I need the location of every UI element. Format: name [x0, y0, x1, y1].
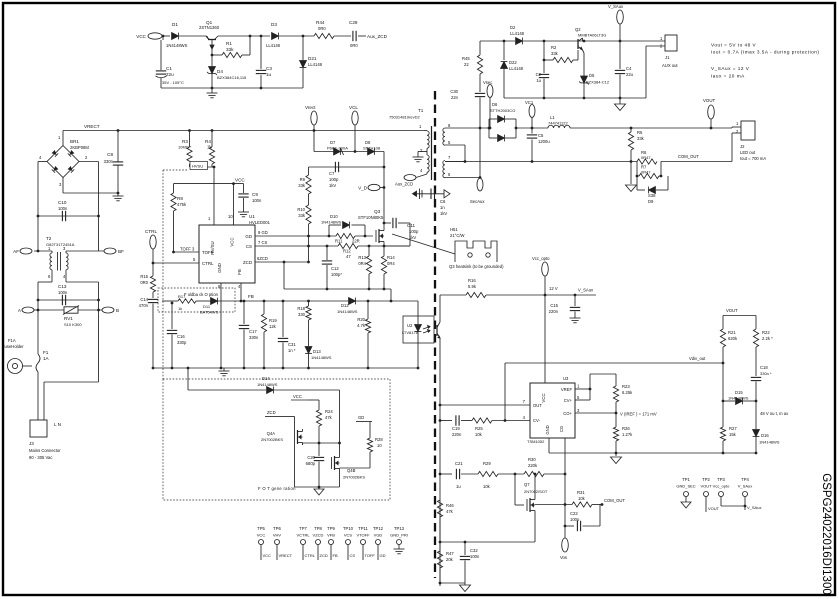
svg-text:TP13: TP13	[394, 526, 405, 531]
svg-text:Iout = 0.7A (Imax 3.5A - durin: Iout = 0.7A (Imax 3.5A - during protecti…	[711, 50, 819, 55]
svg-text:A: A	[18, 308, 22, 313]
svg-text:AUX out: AUX out	[662, 63, 678, 68]
svg-text:4: 4	[523, 415, 526, 420]
svg-text:COM_OUT: COM_OUT	[678, 154, 699, 159]
svg-text:D13: D13	[313, 349, 321, 354]
svg-text:B: B	[116, 308, 119, 313]
svg-text:100n: 100n	[58, 206, 68, 211]
svg-text:100n: 100n	[58, 290, 68, 295]
svg-text:VCC: VCC	[257, 533, 266, 538]
svg-text:Q3: Q3	[374, 209, 381, 214]
svg-text:D21: D21	[308, 56, 317, 61]
svg-text:C4: C4	[626, 66, 632, 71]
svg-text:12 V: 12 V	[549, 286, 558, 291]
svg-text:R15: R15	[140, 274, 148, 279]
svg-text:2.2k *: 2.2k *	[762, 336, 773, 341]
svg-text:3: 3	[59, 182, 62, 187]
svg-text:0R47: 0R47	[641, 170, 651, 175]
svg-text:R47: R47	[446, 551, 454, 556]
svg-text:2N7002/SOT: 2N7002/SOT	[524, 489, 548, 494]
svg-text:GD: GD	[380, 553, 386, 558]
svg-text:R2: R2	[551, 45, 557, 50]
svg-text:TOFF 3: TOFF 3	[180, 247, 195, 252]
svg-text:Aux_ZCD: Aux_ZCD	[395, 182, 413, 187]
svg-text:R12: R12	[343, 249, 351, 254]
svg-text:330n *: 330n *	[760, 371, 772, 376]
svg-text:1N4148WS: 1N4148WS	[311, 355, 332, 360]
svg-text:VRECT: VRECT	[84, 124, 100, 129]
svg-text:5.9k: 5.9k	[468, 284, 477, 289]
svg-text:U1: U1	[249, 214, 255, 219]
svg-text:33k: 33k	[226, 47, 234, 52]
svg-text:D22: D22	[509, 60, 517, 65]
svg-text:F O T gene ration: F O T gene ration	[258, 486, 296, 491]
svg-text:1u: 1u	[536, 78, 541, 83]
svg-text:D1: D1	[172, 22, 178, 27]
svg-text:V_SAux: V_SAux	[608, 4, 624, 9]
svg-text:0R4: 0R4	[387, 261, 395, 266]
svg-text:R3: R3	[182, 139, 188, 144]
svg-text:R21: R21	[728, 330, 736, 335]
svg-text:7: 7	[523, 399, 526, 404]
svg-text:CTRL: CTRL	[202, 261, 214, 266]
svg-text:V_SAux: V_SAux	[738, 484, 752, 489]
svg-text:F1A: F1A	[8, 338, 16, 343]
svg-text:10MΩ *: 10MΩ *	[178, 145, 192, 150]
svg-text:330n: 330n	[104, 159, 114, 164]
svg-text:D4: D4	[217, 69, 223, 74]
svg-text:TP3: TP3	[717, 477, 725, 482]
svg-text:VCL: VCL	[349, 105, 358, 110]
svg-text:VOUT: VOUT	[703, 98, 716, 103]
svg-text:MMBTA06LT3G: MMBTA06LT3G	[578, 33, 606, 38]
svg-text:10: 10	[377, 443, 382, 448]
svg-text:1N4148WS: 1N4148WS	[166, 43, 188, 48]
svg-text:330: 330	[298, 312, 306, 317]
svg-text:TP6: TP6	[273, 526, 281, 531]
svg-text:STTH2003CG: STTH2003CG	[490, 108, 515, 113]
svg-text:R28: R28	[375, 437, 383, 442]
svg-text:6ZCD: 6ZCD	[257, 256, 268, 261]
svg-text:CO+: CO+	[563, 411, 572, 416]
svg-text:R19: R19	[269, 318, 277, 323]
svg-text:10k: 10k	[475, 432, 483, 437]
svg-text:D8: D8	[365, 140, 371, 145]
svg-text:1: 1	[577, 384, 580, 389]
svg-text:VCC: VCC	[541, 393, 546, 402]
svg-text:1200u: 1200u	[538, 139, 550, 144]
svg-text:33k: 33k	[551, 51, 559, 56]
svg-text:S38: S38	[648, 193, 656, 198]
svg-text:CS: CS	[246, 244, 252, 249]
svg-text:VOUT: VOUT	[700, 484, 712, 489]
svg-text:R5: R5	[637, 130, 643, 135]
svg-text:R18: R18	[297, 306, 305, 311]
svg-text:475k: 475k	[177, 202, 187, 207]
svg-text:Aux_ZCD: Aux_ZCD	[367, 34, 388, 39]
svg-text:J2: J2	[740, 144, 745, 149]
svg-text:5: 5	[193, 257, 196, 262]
svg-text:D11: D11	[203, 304, 211, 309]
svg-text:C12: C12	[331, 266, 339, 271]
svg-text:C29: C29	[349, 20, 358, 25]
svg-text:BZX384C16,115: BZX384C16,115	[217, 75, 247, 80]
svg-text:FB: FB	[237, 269, 242, 275]
svg-text:J3: J3	[29, 441, 34, 446]
svg-text:2N7002BKS: 2N7002BKS	[261, 437, 283, 442]
svg-text:T1: T1	[418, 108, 424, 113]
svg-text:BF: BF	[118, 249, 124, 254]
svg-text:HVSU: HVSU	[192, 164, 203, 169]
svg-text:33k: 33k	[298, 183, 306, 188]
svg-text:V_SAux: V_SAux	[578, 288, 594, 293]
svg-text:10k: 10k	[483, 484, 491, 489]
svg-text:1kV: 1kV	[440, 211, 447, 216]
svg-text:D2: D2	[510, 25, 516, 30]
svg-text:GND: GND	[217, 263, 222, 273]
svg-text:Mains Connector: Mains Connector	[29, 448, 61, 453]
svg-text:U3: U3	[563, 376, 569, 381]
svg-text:R9: R9	[300, 177, 306, 182]
svg-text:HVLED001: HVLED001	[249, 220, 271, 225]
svg-text:9 GD: 9 GD	[258, 230, 268, 235]
svg-text:V_SAux: V_SAux	[747, 505, 761, 510]
svg-text:100p: 100p	[329, 177, 339, 182]
svg-text:VTOFF: VTOFF	[356, 533, 370, 538]
svg-text:C32: C32	[470, 548, 478, 553]
svg-text:TSM1052: TSM1052	[527, 439, 545, 444]
svg-text:TOFF: TOFF	[202, 250, 214, 255]
svg-text:R27: R27	[729, 426, 737, 431]
svg-text:2: 2	[420, 148, 423, 153]
svg-text:1: 1	[660, 36, 663, 41]
svg-text:C7: C7	[329, 171, 335, 176]
svg-text:D6: D6	[492, 102, 498, 107]
svg-text:R14: R14	[387, 255, 395, 260]
svg-text:T2: T2	[46, 236, 52, 241]
svg-text:48 V ou t, m ax: 48 V ou t, m ax	[760, 411, 789, 416]
svg-text:330n: 330n	[249, 335, 259, 340]
svg-text:C21: C21	[455, 461, 463, 466]
svg-text:CTRL: CTRL	[305, 553, 316, 558]
svg-text:10: 10	[228, 214, 233, 219]
svg-text:Vsec: Vsec	[483, 80, 492, 85]
svg-text:2KBP08M: 2KBP08M	[70, 145, 89, 150]
svg-text:90 - 305 Vac: 90 - 305 Vac	[29, 455, 52, 460]
svg-text:D3: D3	[271, 22, 277, 27]
svg-text:D9: D9	[648, 199, 654, 204]
svg-text:4: 4	[420, 168, 423, 173]
svg-text:ZCD: ZCD	[243, 260, 252, 265]
svg-text:1.27k: 1.27k	[622, 432, 633, 437]
svg-text:R13: R13	[358, 255, 366, 260]
svg-text:GND_SEC: GND_SEC	[676, 484, 695, 489]
svg-text:47k: 47k	[325, 415, 333, 420]
svg-text:0R47: 0R47	[641, 155, 651, 160]
svg-text:TP2: TP2	[702, 477, 710, 482]
svg-text:GD: GD	[245, 234, 252, 239]
svg-text:2N7002BKS: 2N7002BKS	[343, 475, 365, 480]
svg-text:4: 4	[39, 155, 42, 160]
svg-text:Vos: Vos	[560, 555, 567, 560]
svg-text:SecAux: SecAux	[470, 199, 485, 204]
svg-text:VZCD: VZCD	[313, 533, 324, 538]
svg-text:TP11: TP11	[358, 526, 368, 531]
svg-text:10k: 10k	[578, 496, 586, 501]
svg-text:C15: C15	[550, 303, 558, 308]
svg-text:100n: 100n	[252, 198, 262, 203]
svg-text:TOFF: TOFF	[365, 553, 376, 558]
svg-text:C6: C6	[440, 199, 446, 204]
svg-text:R16: R16	[468, 278, 476, 283]
svg-text:Iaux = 20 mA: Iaux = 20 mA	[711, 74, 745, 79]
svg-text:L1: L1	[550, 115, 555, 120]
svg-text:C18: C18	[760, 365, 768, 370]
svg-text:7: 7	[448, 155, 451, 160]
svg-text:VCC: VCC	[293, 394, 302, 399]
svg-text:R11: R11	[335, 239, 343, 244]
svg-text:R31: R31	[577, 490, 585, 495]
svg-text:D16: D16	[761, 433, 769, 438]
svg-text:1k: 1k	[178, 306, 182, 311]
svg-text:Q3 heatsink (to be grounded): Q3 heatsink (to be grounded)	[449, 264, 504, 269]
svg-text:0R0: 0R0	[318, 26, 326, 31]
svg-text:Vcc_opto: Vcc_opto	[713, 484, 730, 489]
svg-text:VCC: VCC	[230, 237, 235, 246]
svg-text:R25: R25	[475, 426, 483, 431]
svg-text:750314819revD2: 750314819revD2	[389, 115, 420, 120]
svg-text:5: 5	[448, 140, 451, 145]
svg-text:LL4148: LL4148	[308, 62, 323, 67]
svg-text:GND_PRI: GND_PRI	[390, 533, 408, 538]
svg-text:CS: CS	[350, 553, 356, 558]
svg-text:4: 4	[63, 274, 66, 279]
svg-text:VFB: VFB	[327, 533, 335, 538]
svg-text:VCS: VCS	[344, 533, 353, 538]
svg-text:470n: 470n	[139, 303, 149, 308]
svg-text:STTH108: STTH108	[363, 146, 381, 151]
svg-text:R10: R10	[297, 207, 305, 212]
svg-text:Q4B: Q4B	[347, 468, 356, 473]
svg-text:100n: 100n	[470, 554, 480, 559]
svg-text:VREF: VREF	[561, 387, 573, 392]
svg-text:U2: U2	[407, 323, 413, 328]
svg-text:12k: 12k	[269, 324, 277, 329]
svg-text:R24: R24	[325, 409, 333, 414]
svg-text:TP8: TP8	[314, 526, 322, 531]
svg-text:6: 6	[448, 172, 451, 177]
svg-text:OUT: OUT	[533, 403, 542, 408]
svg-text:22n: 22n	[451, 95, 459, 100]
svg-text:680p: 680p	[306, 461, 316, 466]
svg-text:COM_OUT: COM_OUT	[604, 498, 625, 503]
svg-text:R44: R44	[316, 20, 325, 25]
svg-text:4.7k: 4.7k	[357, 323, 366, 328]
svg-text:R20: R20	[357, 317, 365, 322]
svg-text:TP4: TP4	[741, 477, 749, 482]
svg-text:220k: 220k	[528, 463, 538, 468]
svg-text:C17: C17	[249, 329, 257, 334]
svg-text:GSPG24022016DI1300: GSPG24022016DI1300	[820, 473, 832, 594]
svg-text:VC1: VC1	[525, 100, 534, 105]
svg-text:1: 1	[58, 135, 61, 140]
svg-text:C3: C3	[266, 66, 272, 71]
svg-text:VCC: VCC	[263, 553, 272, 558]
svg-text:C19: C19	[452, 426, 460, 431]
svg-text:6: 6	[48, 274, 51, 279]
svg-text:Q7: Q7	[524, 482, 530, 487]
svg-text:VCC: VCC	[136, 34, 146, 39]
svg-text:TP1: TP1	[682, 477, 690, 482]
svg-text:R17: R17	[178, 294, 186, 299]
svg-text:R26: R26	[622, 426, 630, 431]
svg-text:VRECT: VRECT	[279, 553, 293, 558]
svg-text:C8: C8	[107, 152, 113, 157]
svg-text:C31: C31	[288, 342, 296, 347]
svg-text:1: 1	[419, 124, 422, 129]
svg-text:TP12: TP12	[373, 526, 384, 531]
svg-text:1kV: 1kV	[409, 235, 416, 240]
svg-text:33k: 33k	[637, 136, 645, 141]
svg-text:C2: C2	[536, 72, 542, 77]
svg-text:C11: C11	[407, 223, 416, 228]
svg-text:C22: C22	[570, 511, 578, 516]
svg-text:35V - 105°C: 35V - 105°C	[162, 80, 184, 85]
svg-text:D5: D5	[589, 73, 595, 78]
svg-text:Q4A: Q4A	[267, 431, 276, 436]
svg-text:D10: D10	[330, 214, 338, 219]
svg-text:C20: C20	[307, 455, 315, 460]
svg-text:GD: GD	[358, 415, 364, 420]
svg-text:100p: 100p	[409, 229, 419, 234]
svg-text:LL4148: LL4148	[266, 43, 281, 48]
svg-text:P6KE-300A: P6KE-300A	[327, 146, 348, 151]
svg-text:1: 1	[208, 216, 211, 221]
svg-text:Vdiv_out: Vdiv_out	[689, 356, 706, 361]
svg-text:ZCD: ZCD	[320, 553, 328, 558]
svg-text:R1: R1	[226, 41, 232, 46]
svg-text:H51: H51	[450, 227, 458, 232]
svg-text:TP5: TP5	[257, 526, 265, 531]
svg-text:2: 2	[85, 155, 88, 160]
svg-text:R22: R22	[762, 330, 770, 335]
svg-text:LTV817A: LTV817A	[402, 330, 419, 335]
svg-text:V_D: V_D	[358, 186, 368, 191]
svg-text:47: 47	[346, 254, 351, 259]
svg-text:1N4148WS: 1N4148WS	[321, 220, 342, 225]
svg-text:4: 4	[238, 284, 241, 289]
svg-text:VCC: VCC	[235, 178, 245, 183]
svg-text:LL4148: LL4148	[509, 66, 524, 71]
svg-text:1N4148WS: 1N4148WS	[759, 440, 780, 445]
svg-text:AF: AF	[13, 249, 19, 254]
svg-text:TP7: TP7	[299, 526, 307, 531]
svg-text:V_SAux = 12 V: V_SAux = 12 V	[711, 66, 750, 71]
svg-text:CV-: CV-	[533, 418, 541, 423]
svg-text:D7: D7	[330, 140, 336, 145]
svg-text:1: 1	[736, 121, 739, 126]
svg-text:STF10N80K5: STF10N80K5	[358, 215, 384, 220]
svg-text:330p: 330p	[177, 340, 187, 345]
svg-text:1N4148WS: 1N4148WS	[337, 309, 358, 314]
svg-text:R4: R4	[205, 139, 211, 144]
svg-text:0R0: 0R0	[140, 280, 148, 285]
svg-text:33k: 33k	[298, 213, 306, 218]
svg-text:D14: D14	[262, 376, 270, 381]
svg-text:CTRL: CTRL	[145, 229, 157, 234]
svg-text:FuseHolder: FuseHolder	[2, 344, 24, 349]
svg-text:R30: R30	[528, 457, 536, 462]
svg-text:Vcc_opto: Vcc_opto	[532, 256, 550, 261]
svg-text:F1: F1	[43, 350, 49, 355]
svg-text:VHV: VHV	[273, 533, 282, 538]
svg-text:CG: CG	[559, 426, 564, 432]
svg-text:Q2: Q2	[575, 27, 581, 32]
svg-text:VCTRL: VCTRL	[296, 533, 310, 538]
svg-text:ZCD: ZCD	[267, 410, 276, 415]
svg-text:5: 5	[577, 395, 580, 400]
svg-text:R8: R8	[177, 196, 183, 201]
svg-text:47k: 47k	[446, 509, 454, 514]
svg-text:J1: J1	[665, 55, 670, 60]
svg-text:TP9: TP9	[327, 526, 335, 531]
svg-text:15k: 15k	[729, 432, 737, 437]
svg-text:1A: 1A	[43, 356, 50, 361]
svg-text:VOUT: VOUT	[708, 506, 720, 511]
svg-text:1n: 1n	[440, 205, 445, 210]
svg-text:1kV: 1kV	[329, 183, 336, 188]
svg-text:22u: 22u	[626, 72, 634, 77]
svg-text:6.25k: 6.25k	[622, 390, 633, 395]
svg-text:0R0: 0R0	[350, 43, 358, 48]
svg-text:C1: C1	[166, 66, 172, 71]
svg-text:VOUT: VOUT	[726, 308, 738, 313]
svg-text:1N4148WS: 1N4148WS	[257, 382, 278, 387]
svg-text:LL4148: LL4148	[510, 31, 525, 36]
svg-text:LED out: LED out	[740, 150, 756, 155]
svg-text:BAT54WS: BAT54WS	[200, 310, 219, 315]
svg-text:RV1: RV1	[64, 316, 73, 321]
svg-text:C13: C13	[58, 284, 67, 289]
svg-text:20k: 20k	[446, 557, 454, 562]
svg-text:1u: 1u	[266, 72, 272, 77]
svg-text:744741122: 744741122	[548, 121, 569, 126]
svg-text:R46: R46	[446, 503, 454, 508]
svg-text:CV+: CV+	[564, 398, 573, 403]
svg-text:D15: D15	[735, 390, 743, 395]
svg-text:22: 22	[464, 62, 469, 67]
svg-text:Vrect: Vrect	[305, 105, 316, 110]
svg-text:V (IREF ) = 171 mV: V (IREF ) = 171 mV	[620, 412, 657, 417]
svg-text:220n: 220n	[452, 432, 462, 437]
svg-text:21°C/W: 21°C/W	[450, 233, 465, 238]
svg-text:FB: FB	[333, 553, 338, 558]
svg-text:0R4: 0R4	[358, 261, 366, 266]
svg-text:BZX384-C12: BZX384-C12	[586, 80, 610, 85]
svg-text:R23: R23	[622, 384, 630, 389]
svg-text:FB: FB	[248, 294, 254, 299]
svg-text:1n *: 1n *	[288, 348, 296, 353]
svg-text:C16: C16	[177, 334, 185, 339]
svg-text:VGD: VGD	[374, 533, 383, 538]
svg-text:220n: 220n	[549, 309, 559, 314]
svg-text:2STN1360: 2STN1360	[199, 25, 220, 30]
svg-text:C14: C14	[140, 297, 148, 302]
svg-text:R29: R29	[483, 461, 491, 466]
svg-text:GND: GND	[545, 425, 550, 434]
svg-text:BR1: BR1	[70, 139, 79, 144]
svg-text:C10: C10	[58, 200, 67, 205]
